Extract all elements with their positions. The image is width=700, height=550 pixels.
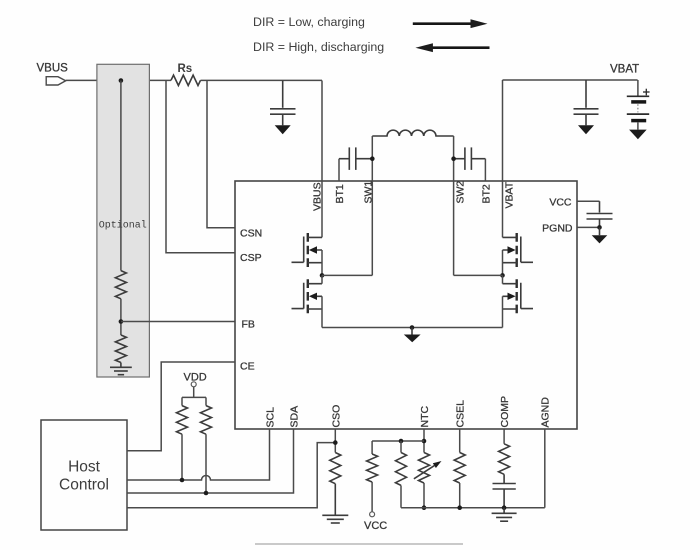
battery BT symbol xyxy=(627,80,649,130)
svg-text:SCL: SCL xyxy=(265,407,277,428)
wire SW1 node link xyxy=(322,274,372,276)
svg-text:COMP: COMP xyxy=(499,396,511,428)
wire SW1 pin line xyxy=(371,136,373,275)
node dot SDA pull-up junction xyxy=(204,491,209,496)
wire CE to host xyxy=(127,362,235,451)
wire optional divider top xyxy=(120,81,122,271)
svg-text:VCC: VCC xyxy=(549,196,572,208)
wire VBAT pin line into IC xyxy=(502,80,504,237)
wire VBUS rail (connector to VBUS pin line) xyxy=(66,79,171,81)
ground earth (optional divider) xyxy=(110,363,132,375)
svg-text:AGND: AGND xyxy=(540,397,552,428)
svg-text:DIR = High, discharging: DIR = High, discharging xyxy=(253,40,384,54)
wire Q4 drain to SW2 node xyxy=(502,275,504,283)
svg-text:VCC: VCC xyxy=(364,520,387,532)
VCC supply terminal circle xyxy=(370,512,375,517)
transistor Q1 high-side left NMOS xyxy=(292,233,323,267)
svg-text:VBAT: VBAT xyxy=(504,181,516,208)
svg-text:PGND: PGND xyxy=(542,223,573,235)
node dot CSEL rail junction xyxy=(457,505,462,510)
wire CSN sense line xyxy=(207,81,235,228)
svg-text:CE: CE xyxy=(240,361,255,373)
wire SCL to host xyxy=(127,429,270,480)
node junction dot on VBUS rail xyxy=(119,78,124,83)
ground chassis (battery) xyxy=(629,130,647,140)
wire BT2 pin stub xyxy=(484,159,486,181)
ground chassis (VBAT cap) xyxy=(578,125,594,134)
Host Control box xyxy=(41,420,127,530)
wire Q2 drain to SW1 node xyxy=(321,275,323,283)
capacitor VCC decoupling xyxy=(587,201,613,227)
transistor Q3 high-side right NMOS xyxy=(503,233,534,267)
capacitor VBUS input xyxy=(270,81,296,126)
wire BT1 pin stub xyxy=(338,159,340,181)
VDD supply terminal circle xyxy=(191,382,196,387)
capacitor COMP xyxy=(493,474,516,507)
IC body outline xyxy=(235,181,577,429)
wire VDD tee xyxy=(182,396,206,398)
svg-text:SW2: SW2 xyxy=(455,181,467,204)
svg-text:NTC: NTC xyxy=(419,406,431,428)
wire PGND pin xyxy=(577,226,600,228)
svg-text:VBAT: VBAT xyxy=(610,64,639,76)
wire Q3 source to SW2 node xyxy=(502,250,504,275)
ground earth (analog rail) xyxy=(492,508,517,522)
svg-text:CSN: CSN xyxy=(240,227,262,239)
node dot SW1 switch junction xyxy=(320,273,325,278)
ground chassis (VBUS cap) xyxy=(275,125,291,134)
svg-text:CSO: CSO xyxy=(331,405,343,428)
node dot SW1 cap junction xyxy=(370,156,375,161)
svg-text:SDA: SDA xyxy=(289,406,301,428)
node FB tap junction dot xyxy=(119,319,124,324)
partial table border artifact xyxy=(255,543,463,545)
wire VBUS pin line into IC xyxy=(321,81,323,238)
wire VDD feed xyxy=(193,387,195,398)
wire AGND pin line xyxy=(544,429,546,508)
resistor optional upper xyxy=(115,271,126,299)
svg-text:Optional: Optional xyxy=(99,220,147,232)
ground earth (CSO) xyxy=(322,484,348,523)
wire NTC pin line xyxy=(423,429,425,453)
optional RC sense network box xyxy=(97,64,149,377)
thermistor NTC (variable resistor) xyxy=(414,453,442,508)
node dot SW2 cap junction xyxy=(451,156,456,161)
resistor optional lower xyxy=(115,335,126,363)
ground chassis (VCC cap / PGND) xyxy=(592,227,608,243)
node dot PGND junction xyxy=(597,225,602,230)
svg-text:DIR = Low, charging: DIR = Low, charging xyxy=(253,15,365,29)
resistor CSO xyxy=(330,453,341,484)
node dot CSO junction xyxy=(333,440,338,445)
wire internal source rail xyxy=(322,327,503,329)
capacitor BT1 bootstrap xyxy=(339,147,372,170)
wire Q1 source to SW1 node xyxy=(321,250,323,275)
VBUS input connector terminal xyxy=(46,77,65,85)
capacitor BT2 bootstrap xyxy=(454,147,486,170)
wire SW2 node link xyxy=(454,274,503,276)
node dot SCL pull-up junction xyxy=(180,478,185,483)
resistor NTC pull-up to VCC xyxy=(367,441,378,512)
resistor Rs current sense xyxy=(171,75,201,85)
svg-text:Host: Host xyxy=(68,459,101,476)
svg-text:Rs: Rs xyxy=(178,63,193,75)
battery plus sign xyxy=(643,89,650,96)
capacitor VBAT output xyxy=(574,80,599,125)
svg-text:BT1: BT1 xyxy=(334,184,346,203)
resistor NTC parallel xyxy=(396,441,407,508)
svg-text:BT2: BT2 xyxy=(481,184,493,203)
ground chassis (power stage) xyxy=(404,328,421,343)
svg-text:CSP: CSP xyxy=(240,252,262,264)
node dot internal ground tap xyxy=(410,325,415,330)
resistor COMP xyxy=(499,429,510,474)
resistor CSEL xyxy=(454,429,465,508)
wire FB to IC xyxy=(121,321,235,323)
node dot COMP rail junction xyxy=(502,505,507,510)
wire SDA to host xyxy=(127,429,294,493)
wire VBAT rail xyxy=(503,79,638,81)
svg-text:Control: Control xyxy=(59,477,109,494)
node dot thermistor rail junction xyxy=(422,505,427,510)
wire CSP sense line xyxy=(166,81,235,253)
svg-text:VBUS: VBUS xyxy=(37,63,69,75)
wire Q4 source to internal rail xyxy=(502,296,504,327)
wire VCC pin xyxy=(577,200,600,202)
node dot SW2 switch junction xyxy=(500,273,505,278)
transistor Q2 low-side left NMOS xyxy=(292,279,323,313)
wire analog bottom rail xyxy=(401,507,545,509)
wire divider mid xyxy=(120,299,122,335)
node dot NTC junction xyxy=(422,439,427,444)
resistor SDA pull-up xyxy=(201,397,212,493)
legend arrow right (charging direction) xyxy=(413,19,488,28)
resistor SCL pull-up xyxy=(177,397,188,480)
legend arrow left (discharging direction) xyxy=(415,43,489,52)
wire CSO link to host xyxy=(127,443,335,508)
wire Q2 source to internal rail xyxy=(321,296,323,327)
transistor Q4 low-side right NMOS xyxy=(503,279,534,313)
svg-text:FB: FB xyxy=(242,319,255,331)
svg-text:CSEL: CSEL xyxy=(455,400,467,428)
wire NTC top tee xyxy=(372,440,424,442)
node dot NTC mid junction xyxy=(399,439,404,444)
wire CSO pin line xyxy=(334,429,336,453)
inductor L1 xyxy=(372,130,453,136)
wire SW2 pin line xyxy=(453,136,455,275)
